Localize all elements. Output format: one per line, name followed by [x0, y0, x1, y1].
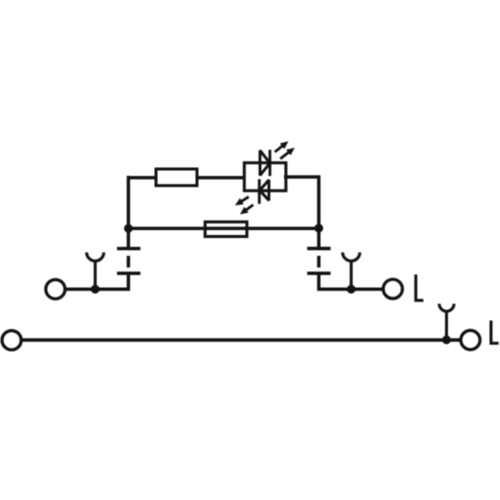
test tap left fork [87, 252, 104, 261]
wire right drop to disconnect [317, 228, 320, 248]
wire resistor to LED box [197, 176, 245, 179]
disconnect right dash [317, 256, 320, 268]
test tap right stem [350, 261, 353, 290]
LED D1 cathode bar [268, 150, 271, 176]
wire left elbow [66, 273, 128, 289]
test tap bottom stem [445, 311, 448, 340]
terminal circle bottom-left [2, 331, 21, 350]
disconnect left bar 1 [117, 247, 140, 250]
test tap right fork [343, 252, 360, 261]
terminal circle left [46, 280, 65, 299]
fuse [205, 222, 247, 237]
test tap left stem [94, 261, 97, 290]
label L right [416, 275, 424, 301]
disconnect left dash [127, 256, 130, 268]
LED D1 anode triangle [260, 150, 270, 175]
terminal circle right [383, 279, 402, 298]
terminal circle bottom-right [461, 330, 480, 349]
LED D2 anode triangle [260, 180, 269, 201]
wire left drop to disconnect [127, 228, 130, 248]
test tap bottom fork [439, 304, 454, 311]
wire bottom rail [21, 338, 461, 341]
disconnect left bar 2 [117, 272, 140, 275]
LED D2 cathode bar [258, 179, 261, 204]
LED D1 light arrow 1 [275, 141, 289, 152]
junction bottom test node [442, 335, 451, 344]
resistor [156, 169, 197, 186]
junction left node [124, 224, 133, 233]
wire LED box to right [284, 175, 319, 178]
junction left test node [91, 285, 100, 294]
wire right vertical [317, 175, 320, 230]
LED D1 light arrow 2 [280, 148, 294, 159]
disconnect right bar 1 [307, 247, 330, 250]
wire left vertical [127, 176, 130, 230]
junction right node [314, 224, 323, 233]
LED D2 light arrow 2 [240, 205, 253, 215]
wire right elbow [319, 273, 382, 289]
LED box [244, 163, 286, 191]
wire top-left horizontal [127, 176, 156, 179]
junction right test node [347, 285, 356, 294]
label L bottom-right [491, 321, 499, 344]
wire lower loop horizontal [128, 227, 318, 230]
disconnect right bar 2 [307, 272, 330, 275]
LED D2 light arrow 1 [235, 197, 249, 206]
